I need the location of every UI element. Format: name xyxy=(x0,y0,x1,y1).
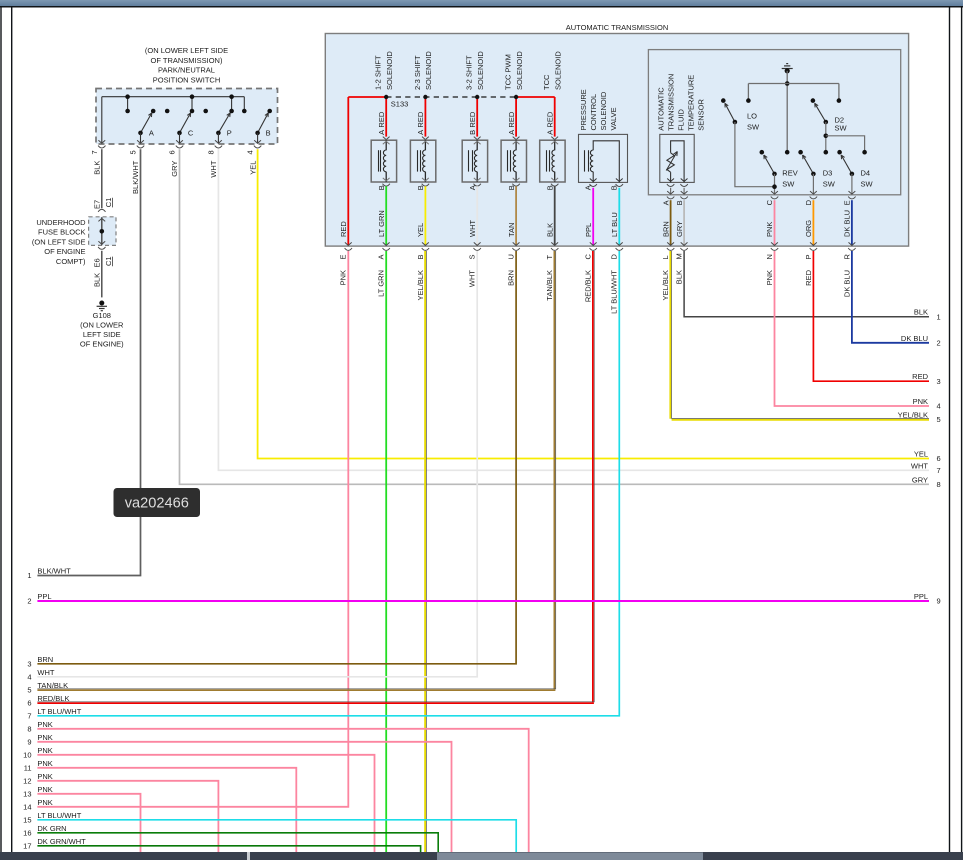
svg-text:SOLENOID: SOLENOID xyxy=(476,51,485,90)
svg-text:UNDERHOOD: UNDERHOOD xyxy=(36,218,86,227)
svg-text:B: B xyxy=(416,185,425,190)
svg-text:8: 8 xyxy=(206,150,215,154)
svg-text:WHT: WHT xyxy=(911,461,928,470)
svg-text:PARK/NEUTRAL: PARK/NEUTRAL xyxy=(158,66,215,75)
svg-text:E7: E7 xyxy=(93,200,102,209)
svg-text:LEFT SIDE: LEFT SIDE xyxy=(83,330,121,339)
svg-text:BRN: BRN xyxy=(661,221,670,237)
svg-text:BLK/WHT: BLK/WHT xyxy=(37,567,71,576)
svg-text:A: A xyxy=(468,185,477,190)
svg-text:B: B xyxy=(416,254,425,259)
svg-text:AUTOMATIC: AUTOMATIC xyxy=(657,87,666,131)
svg-text:12: 12 xyxy=(23,776,31,785)
svg-text:DK BLU: DK BLU xyxy=(842,270,851,297)
svg-text:POSITION SWITCH: POSITION SWITCH xyxy=(153,75,221,84)
svg-text:B: B xyxy=(507,185,516,190)
svg-text:LT BLU/WHT: LT BLU/WHT xyxy=(610,270,619,314)
svg-text:A: A xyxy=(149,129,154,138)
svg-text:4: 4 xyxy=(246,150,255,154)
svg-text:PNK: PNK xyxy=(37,772,52,781)
svg-text:D4: D4 xyxy=(861,169,871,178)
svg-text:FUSE BLOCK: FUSE BLOCK xyxy=(38,228,86,237)
svg-text:COMPT): COMPT) xyxy=(56,257,86,266)
svg-text:va202466: va202466 xyxy=(125,495,189,511)
svg-text:C: C xyxy=(765,199,774,205)
svg-text:9: 9 xyxy=(937,597,941,606)
svg-text:GRY: GRY xyxy=(675,221,684,237)
svg-text:P: P xyxy=(227,129,232,138)
svg-text:SOLENOID: SOLENOID xyxy=(515,51,524,90)
svg-text:PNK: PNK xyxy=(37,798,52,807)
svg-text:DK GRN/WHT: DK GRN/WHT xyxy=(37,837,86,846)
svg-text:RED: RED xyxy=(377,111,386,127)
svg-text:PNK: PNK xyxy=(913,397,928,406)
svg-text:TRANSMISSION: TRANSMISSION xyxy=(667,74,676,131)
svg-text:7: 7 xyxy=(27,711,31,720)
svg-text:BLK/WHT: BLK/WHT xyxy=(131,160,140,194)
svg-text:6: 6 xyxy=(937,454,941,463)
svg-text:3: 3 xyxy=(27,659,31,668)
svg-text:BLK: BLK xyxy=(93,161,102,175)
svg-text:A: A xyxy=(416,130,425,135)
svg-text:5: 5 xyxy=(937,415,941,424)
svg-text:E: E xyxy=(843,200,852,205)
svg-text:(ON LOWER LEFT SIDE: (ON LOWER LEFT SIDE xyxy=(145,46,228,55)
svg-text:(ON LEFT SIDE: (ON LEFT SIDE xyxy=(32,237,86,246)
svg-text:RED: RED xyxy=(507,111,516,127)
svg-text:B: B xyxy=(545,185,554,190)
svg-text:SW: SW xyxy=(782,180,795,189)
svg-text:RED: RED xyxy=(545,111,554,127)
svg-text:YEL: YEL xyxy=(914,450,928,459)
svg-text:B: B xyxy=(675,200,684,205)
svg-text:C1: C1 xyxy=(104,198,113,208)
svg-text:2: 2 xyxy=(937,338,941,347)
svg-text:3: 3 xyxy=(937,377,941,386)
svg-text:OF ENGINE: OF ENGINE xyxy=(44,247,85,256)
svg-text:YEL/BLK: YEL/BLK xyxy=(898,411,928,420)
svg-text:GRY: GRY xyxy=(170,161,179,177)
svg-text:1: 1 xyxy=(27,571,31,580)
svg-text:6: 6 xyxy=(168,150,177,154)
svg-text:TEMPERATURE: TEMPERATURE xyxy=(687,75,696,131)
svg-text:RED/BLK: RED/BLK xyxy=(584,270,593,302)
svg-text:SW: SW xyxy=(835,124,848,133)
svg-text:WHT: WHT xyxy=(37,668,54,677)
svg-text:BLK: BLK xyxy=(545,223,554,237)
svg-text:RED: RED xyxy=(416,111,425,127)
svg-text:BRN: BRN xyxy=(37,655,53,664)
svg-text:REV: REV xyxy=(782,169,797,178)
svg-text:PNK: PNK xyxy=(765,270,774,285)
svg-text:G108: G108 xyxy=(93,311,111,320)
svg-text:YEL: YEL xyxy=(416,223,425,237)
svg-text:T: T xyxy=(545,255,554,260)
svg-text:7: 7 xyxy=(90,150,99,154)
svg-text:DK BLU: DK BLU xyxy=(843,210,852,237)
svg-text:2-3 SHIFT: 2-3 SHIFT xyxy=(413,55,422,90)
svg-text:SW: SW xyxy=(747,123,760,132)
svg-text:PPL: PPL xyxy=(584,223,593,237)
svg-text:VALVE: VALVE xyxy=(609,107,618,130)
svg-text:A: A xyxy=(583,185,592,190)
svg-text:PNK: PNK xyxy=(37,733,52,742)
svg-text:2: 2 xyxy=(27,597,31,606)
svg-text:DK GRN: DK GRN xyxy=(37,824,66,833)
svg-text:A: A xyxy=(545,130,554,135)
svg-text:1: 1 xyxy=(937,312,941,321)
svg-text:AUTOMATIC TRANSMISSION: AUTOMATIC TRANSMISSION xyxy=(566,23,669,32)
svg-text:LT BLU: LT BLU xyxy=(610,212,619,237)
svg-text:PPL: PPL xyxy=(914,592,928,601)
svg-text:SOLENOID: SOLENOID xyxy=(385,51,394,90)
svg-text:D3: D3 xyxy=(823,169,833,178)
svg-text:WHT: WHT xyxy=(468,270,477,287)
svg-text:LT BLU/WHT: LT BLU/WHT xyxy=(37,811,81,820)
svg-text:OF TRANSMISSION): OF TRANSMISSION) xyxy=(151,56,223,65)
svg-text:OF ENGINE): OF ENGINE) xyxy=(80,340,124,349)
svg-text:17: 17 xyxy=(23,841,31,850)
svg-text:11: 11 xyxy=(24,763,32,772)
svg-text:A: A xyxy=(507,130,516,135)
svg-text:N: N xyxy=(765,254,774,259)
svg-text:M: M xyxy=(675,253,684,259)
svg-text:WHT: WHT xyxy=(209,160,218,177)
svg-text:RED: RED xyxy=(468,111,477,127)
svg-text:3-2 SHIFT: 3-2 SHIFT xyxy=(465,55,474,90)
svg-text:5: 5 xyxy=(27,685,31,694)
svg-text:TAN/BLK: TAN/BLK xyxy=(37,681,68,690)
svg-text:10: 10 xyxy=(23,750,31,759)
svg-text:8: 8 xyxy=(937,480,941,489)
svg-text:13: 13 xyxy=(23,789,31,798)
svg-text:TAN/BLK: TAN/BLK xyxy=(545,270,554,301)
svg-text:RED/BLK: RED/BLK xyxy=(37,694,69,703)
svg-text:A: A xyxy=(377,130,386,135)
svg-text:A: A xyxy=(377,254,386,259)
svg-text:LT BLU/WHT: LT BLU/WHT xyxy=(37,707,81,716)
svg-text:E6: E6 xyxy=(93,258,102,267)
svg-text:15: 15 xyxy=(23,815,31,824)
svg-text:LO: LO xyxy=(747,111,757,120)
svg-text:PNK: PNK xyxy=(339,270,348,285)
svg-text:L: L xyxy=(661,255,670,259)
svg-text:S: S xyxy=(468,254,477,259)
svg-text:8: 8 xyxy=(27,724,31,733)
svg-text:9: 9 xyxy=(27,737,31,746)
svg-text:D: D xyxy=(804,199,813,205)
svg-text:1-2 SHIFT: 1-2 SHIFT xyxy=(374,55,383,90)
svg-text:YEL/BLK: YEL/BLK xyxy=(661,270,670,300)
svg-text:RED: RED xyxy=(339,221,348,237)
svg-text:FLUID: FLUID xyxy=(677,109,686,131)
svg-text:RED: RED xyxy=(912,372,928,381)
svg-text:BLK: BLK xyxy=(93,273,102,287)
svg-text:PNK: PNK xyxy=(37,785,52,794)
svg-text:SW: SW xyxy=(823,180,836,189)
svg-text:C: C xyxy=(584,254,593,260)
svg-text:SW: SW xyxy=(861,180,874,189)
svg-text:DK BLU: DK BLU xyxy=(901,334,928,343)
svg-text:YEL/BLK: YEL/BLK xyxy=(416,270,425,300)
svg-text:PPL: PPL xyxy=(37,592,51,601)
svg-text:SOLENOID: SOLENOID xyxy=(599,91,608,130)
svg-text:B: B xyxy=(468,130,477,135)
svg-text:TCC PWM: TCC PWM xyxy=(504,54,513,90)
svg-text:16: 16 xyxy=(23,828,31,837)
svg-text:5: 5 xyxy=(129,150,138,154)
svg-text:PRESSURE: PRESSURE xyxy=(579,89,588,130)
svg-text:SENSOR: SENSOR xyxy=(697,99,706,131)
svg-text:E: E xyxy=(339,254,348,259)
svg-text:14: 14 xyxy=(23,802,31,811)
svg-text:4: 4 xyxy=(27,672,31,681)
svg-text:SOLENOID: SOLENOID xyxy=(554,51,563,90)
svg-text:TAN: TAN xyxy=(507,223,516,237)
svg-text:A: A xyxy=(661,200,670,205)
svg-text:D: D xyxy=(610,254,619,260)
svg-text:4: 4 xyxy=(937,402,941,411)
svg-text:WHT: WHT xyxy=(468,220,477,237)
svg-text:C1: C1 xyxy=(104,256,113,266)
svg-text:6: 6 xyxy=(27,698,31,707)
svg-text:S133: S133 xyxy=(391,99,409,108)
svg-text:BLK: BLK xyxy=(914,308,928,317)
svg-text:TCC: TCC xyxy=(542,74,551,90)
svg-text:GRY: GRY xyxy=(912,475,928,484)
svg-text:BRN: BRN xyxy=(507,270,516,286)
svg-text:U: U xyxy=(507,254,516,259)
svg-text:PNK: PNK xyxy=(37,759,52,768)
svg-text:ORG: ORG xyxy=(804,220,813,237)
svg-text:P: P xyxy=(804,254,813,259)
svg-text:YEL: YEL xyxy=(248,161,257,175)
svg-text:R: R xyxy=(842,254,851,260)
svg-text:B: B xyxy=(377,185,386,190)
svg-text:SOLENOID: SOLENOID xyxy=(424,51,433,90)
svg-text:LT GRN: LT GRN xyxy=(377,270,386,297)
svg-text:CONTROL: CONTROL xyxy=(589,94,598,131)
svg-text:PNK: PNK xyxy=(37,720,52,729)
svg-text:B: B xyxy=(266,129,271,138)
svg-text:RED: RED xyxy=(804,269,813,285)
svg-text:(ON LOWER: (ON LOWER xyxy=(80,321,124,330)
svg-text:B: B xyxy=(609,185,618,190)
svg-text:BLK: BLK xyxy=(675,270,684,284)
svg-text:PNK: PNK xyxy=(765,222,774,237)
svg-text:PNK: PNK xyxy=(37,746,52,755)
svg-text:7: 7 xyxy=(937,466,941,475)
svg-text:C: C xyxy=(188,129,194,138)
svg-text:LT GRN: LT GRN xyxy=(377,210,386,237)
